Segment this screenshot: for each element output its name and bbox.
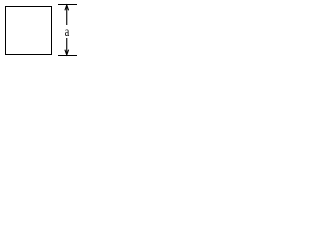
arrowhead up [65,5,69,10]
dimension line upper segment [66,5,67,25]
square outline [6,7,52,55]
dimension line lower segment [66,38,67,55]
top extension line [58,4,77,6]
bottom extension line [58,55,77,57]
arrowhead down [65,50,69,55]
svg-text:a: a [65,25,70,40]
